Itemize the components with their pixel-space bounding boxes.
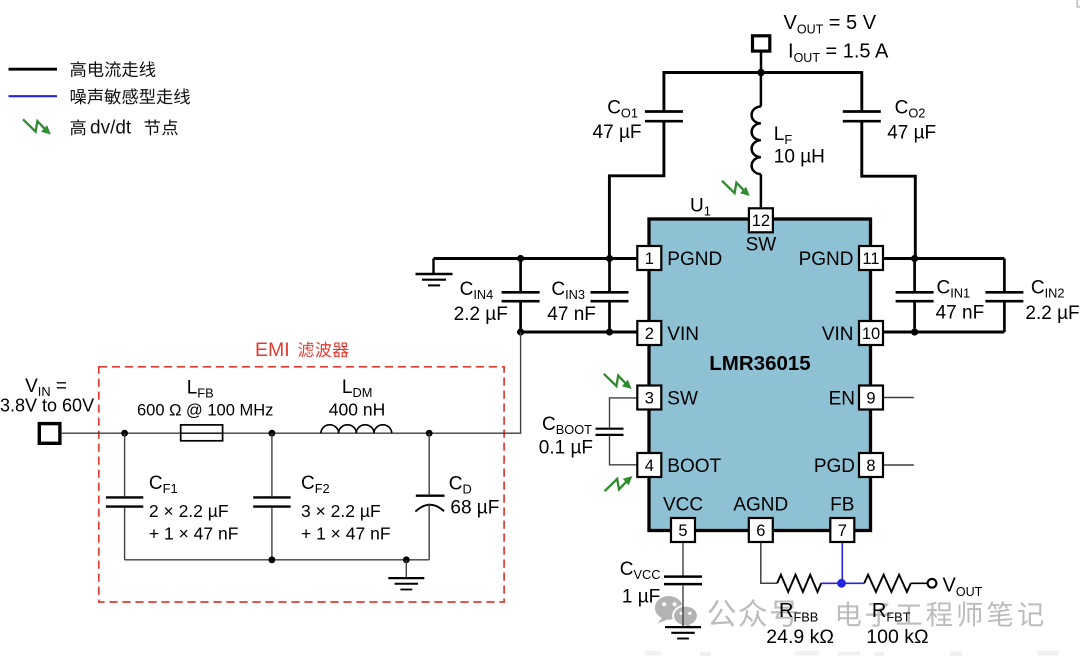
node CIN1 bottom — [911, 328, 918, 335]
legend label: noise sensitive trace — [71, 89, 86, 104]
svg-text:68 µF: 68 µF — [450, 498, 499, 519]
watermark wechat icon — [655, 596, 698, 630]
capacitor CF1 — [124, 433, 126, 496]
wire blue FB node — [821, 582, 864, 584]
svg-text:0.1 µF: 0.1 µF — [539, 438, 593, 459]
pin 9 — [859, 386, 883, 410]
pin 1 — [637, 246, 661, 270]
svg-text:47 µF: 47 µF — [887, 123, 936, 144]
output terminal square — [753, 36, 770, 51]
wire AGND pin6 down — [761, 542, 777, 583]
wire RFBT to VOUT terminal — [911, 582, 928, 584]
svg-text:7: 7 — [838, 522, 847, 540]
capacitor CD (polarized) — [428, 433, 430, 494]
pin 8 — [859, 453, 883, 477]
legend high-current trace line — [9, 68, 58, 71]
wire EMI bottom rail — [125, 559, 430, 561]
svg-text:LMR36015: LMR36015 — [709, 352, 810, 375]
svg-text:+ 1 × 47 nF: + 1 × 47 nF — [149, 524, 239, 544]
wire bottom VIN rail left — [521, 331, 638, 334]
wire SW pin3 to CBOOT — [610, 398, 638, 428]
wire input rail — [61, 332, 521, 433]
resistor RFBT — [864, 575, 911, 592]
watermark text gongzhonghao — [708, 600, 735, 627]
svg-text:10: 10 — [862, 325, 880, 343]
svg-text:10 µH: 10 µH — [774, 147, 825, 168]
svg-text:+ 1 × 47 nF: + 1 × 47 nF — [301, 524, 391, 544]
node CF2 top — [269, 430, 276, 437]
legend label: high current trace — [71, 61, 86, 77]
legend label: high dv/dt node — [71, 119, 86, 135]
node FB junction (blue) — [837, 579, 846, 588]
node: output junction — [757, 69, 764, 76]
svg-text:AGND: AGND — [733, 495, 788, 516]
capacitor CIN4 — [519, 259, 522, 292]
EMI filter dashed box — [99, 367, 504, 602]
wire top PGND rail right — [883, 257, 1004, 260]
node VIN rail / CIN4 bottom — [517, 328, 524, 335]
pin 7 — [830, 518, 854, 542]
svg-text:SW: SW — [667, 389, 698, 410]
svg-text:5: 5 — [678, 522, 687, 540]
inductor LDM — [321, 425, 392, 433]
capacitor CBOOT — [596, 428, 624, 430]
node VIN rail / CIN3 bottom — [606, 328, 613, 335]
svg-text:600 Ω @ 100 MHz: 600 Ω @ 100 MHz — [137, 402, 273, 420]
node CD top — [426, 430, 433, 437]
watermark fragment top-right corner — [1077, 0, 1080, 7]
input terminal square — [39, 424, 60, 444]
watermark text dianzi gongchengshi biji — [838, 601, 861, 626]
svg-text:2.2 µF: 2.2 µF — [1025, 303, 1079, 324]
svg-text:3 × 2.2 µF: 3 × 2.2 µF — [301, 501, 381, 521]
node CIN4 top — [517, 255, 524, 262]
wire bottom VIN rail right — [883, 331, 1004, 334]
high dv/dt arrow at pin3 — [604, 374, 632, 389]
capacitor CO1 — [645, 110, 683, 113]
svg-text:VCC: VCC — [663, 495, 703, 516]
ferrite bead LFB — [181, 425, 223, 441]
legend high dv/dt node arrow — [23, 119, 51, 134]
svg-text:EN: EN — [829, 389, 855, 410]
legend noise-sensitive trace line (blue) — [9, 95, 58, 97]
svg-text:12: 12 — [752, 212, 770, 230]
wire top PGND rail to ground — [434, 257, 638, 260]
svg-text:1: 1 — [645, 250, 654, 268]
inductor LF coil — [752, 107, 761, 175]
ground symbol EMI — [405, 560, 407, 578]
pin 10 — [859, 321, 883, 345]
watermark fragments bottom edge — [645, 651, 1058, 656]
svg-text:SW: SW — [746, 235, 777, 256]
pin 5 — [671, 518, 695, 542]
wire EN stub — [883, 397, 914, 399]
svg-text:2.2 µF: 2.2 µF — [454, 304, 508, 325]
svg-text:9: 9 — [866, 389, 875, 407]
node bottom ground — [403, 556, 410, 563]
wire: top output rail — [664, 71, 862, 74]
svg-text:dv/dt: dv/dt — [90, 118, 132, 139]
svg-text:8: 8 — [866, 457, 875, 475]
pin 6 — [749, 518, 773, 542]
svg-text:PGND: PGND — [799, 249, 854, 270]
svg-text:3: 3 — [645, 389, 654, 407]
node CIN1 top — [911, 255, 918, 262]
capacitor CF2 — [271, 433, 273, 496]
svg-text:PGND: PGND — [667, 249, 722, 270]
wire CO2 top — [860, 71, 863, 110]
wire LF bottom to pin12 — [760, 174, 763, 209]
svg-text:VIN: VIN — [822, 324, 854, 345]
capacitor CVCC — [664, 575, 702, 578]
svg-text:24.9 kΩ: 24.9 kΩ — [766, 626, 834, 648]
capacitor CIN2 branch — [1003, 259, 1006, 292]
svg-text:4: 4 — [645, 457, 654, 475]
resistor RFBB — [777, 575, 821, 592]
svg-text:1 µF: 1 µF — [622, 587, 660, 608]
wire CO1 top — [662, 71, 665, 110]
svg-text:BOOT: BOOT — [667, 456, 721, 477]
pin 12 — [749, 208, 773, 232]
capacitor CIN3 — [608, 259, 611, 292]
capacitor CIN1 — [913, 259, 916, 292]
node bottom CF2 — [269, 556, 276, 563]
pin 2 — [637, 321, 661, 345]
wire CO1 bottom to PGND1 — [609, 123, 664, 259]
svg-text:11: 11 — [862, 250, 879, 268]
svg-text:VIN: VIN — [667, 324, 699, 345]
svg-text:47 µF: 47 µF — [593, 122, 642, 143]
VOUT terminal circle — [928, 579, 937, 588]
node CIN3 top — [606, 255, 613, 262]
ground symbol left — [432, 259, 434, 274]
svg-text:47 nF: 47 nF — [936, 303, 985, 324]
pin 4 — [637, 453, 661, 477]
op IC U1 LMR36015 body — [649, 219, 871, 531]
svg-text:6: 6 — [756, 522, 765, 540]
pin 3 — [637, 386, 661, 410]
ground symbol CVCC — [665, 626, 701, 628]
svg-text:EMI: EMI — [255, 339, 290, 361]
capacitor CO2 — [843, 110, 881, 113]
svg-text:2: 2 — [645, 325, 654, 343]
wire CBOOT to BOOT pin4 — [610, 436, 638, 465]
high dv/dt arrow at SW pin12 — [722, 181, 750, 196]
pin 11 — [859, 246, 883, 270]
svg-text:PGD: PGD — [814, 456, 855, 477]
svg-text:2 × 2.2 µF: 2 × 2.2 µF — [149, 501, 229, 521]
svg-text:3.8V to 60V: 3.8V to 60V — [0, 396, 94, 416]
wire PGD stub — [883, 464, 914, 466]
wire blue FB pin7 down — [841, 542, 843, 583]
wire: terminal stub — [760, 51, 763, 72]
wire VCC pin5 down — [682, 542, 684, 576]
wire LF top — [760, 73, 763, 107]
wire CVCC to ground — [682, 585, 684, 627]
wire CO2 bottom to PGND11 — [862, 123, 916, 259]
svg-text:47 nF: 47 nF — [547, 304, 596, 325]
svg-text:400 nH: 400 nH — [329, 400, 385, 420]
node CF1 top — [121, 430, 128, 437]
svg-text:FB: FB — [830, 495, 854, 516]
high dv/dt arrow at pin4 — [605, 476, 633, 491]
svg-text:100 kΩ: 100 kΩ — [866, 626, 928, 648]
